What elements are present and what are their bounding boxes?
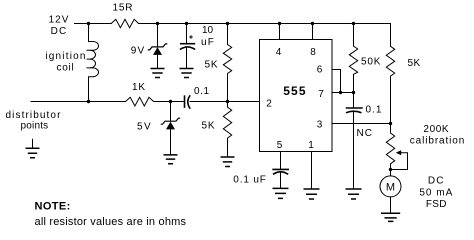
svg-text:6: 6 (317, 65, 323, 76)
svg-text:3: 3 (317, 120, 323, 131)
svg-text:12V: 12V (49, 15, 70, 26)
svg-text:5K: 5K (205, 60, 219, 71)
svg-text:distributor: distributor (6, 110, 62, 121)
svg-text:5V: 5V (137, 122, 152, 133)
svg-text:all resistor values are in ohm: all resistor values are in ohms (35, 216, 187, 228)
svg-text:0.1: 0.1 (366, 105, 383, 116)
svg-text:2: 2 (266, 99, 272, 110)
svg-text:coil: coil (56, 63, 74, 74)
svg-text:555: 555 (283, 84, 307, 98)
svg-text:7: 7 (318, 89, 324, 100)
svg-text:8: 8 (310, 47, 316, 58)
svg-text:50 mA: 50 mA (419, 188, 453, 199)
svg-text:FSD: FSD (426, 199, 447, 210)
svg-text:uF: uF (201, 37, 215, 48)
svg-text:0.1: 0.1 (194, 86, 210, 97)
svg-text:NC: NC (357, 128, 373, 139)
svg-text:0.1 uF: 0.1 uF (233, 175, 266, 186)
svg-text:4: 4 (276, 47, 282, 58)
svg-text:calibration: calibration (410, 136, 465, 147)
svg-text:M: M (386, 182, 395, 194)
svg-text:10: 10 (202, 25, 214, 36)
svg-text:5K: 5K (202, 121, 216, 132)
svg-text:ignition: ignition (45, 51, 86, 62)
svg-text:1K: 1K (132, 82, 146, 93)
svg-text:200K: 200K (423, 124, 449, 135)
svg-text:5K: 5K (408, 58, 421, 69)
svg-text:15R: 15R (113, 3, 134, 14)
svg-text:DC: DC (51, 26, 68, 37)
svg-text:points: points (21, 121, 49, 132)
svg-text:50K: 50K (361, 57, 381, 68)
svg-text:DC: DC (428, 176, 445, 187)
svg-text:9V: 9V (131, 46, 146, 57)
svg-text:5: 5 (277, 140, 283, 151)
svg-text:1: 1 (308, 140, 314, 151)
svg-text:NOTE:: NOTE: (35, 201, 71, 213)
